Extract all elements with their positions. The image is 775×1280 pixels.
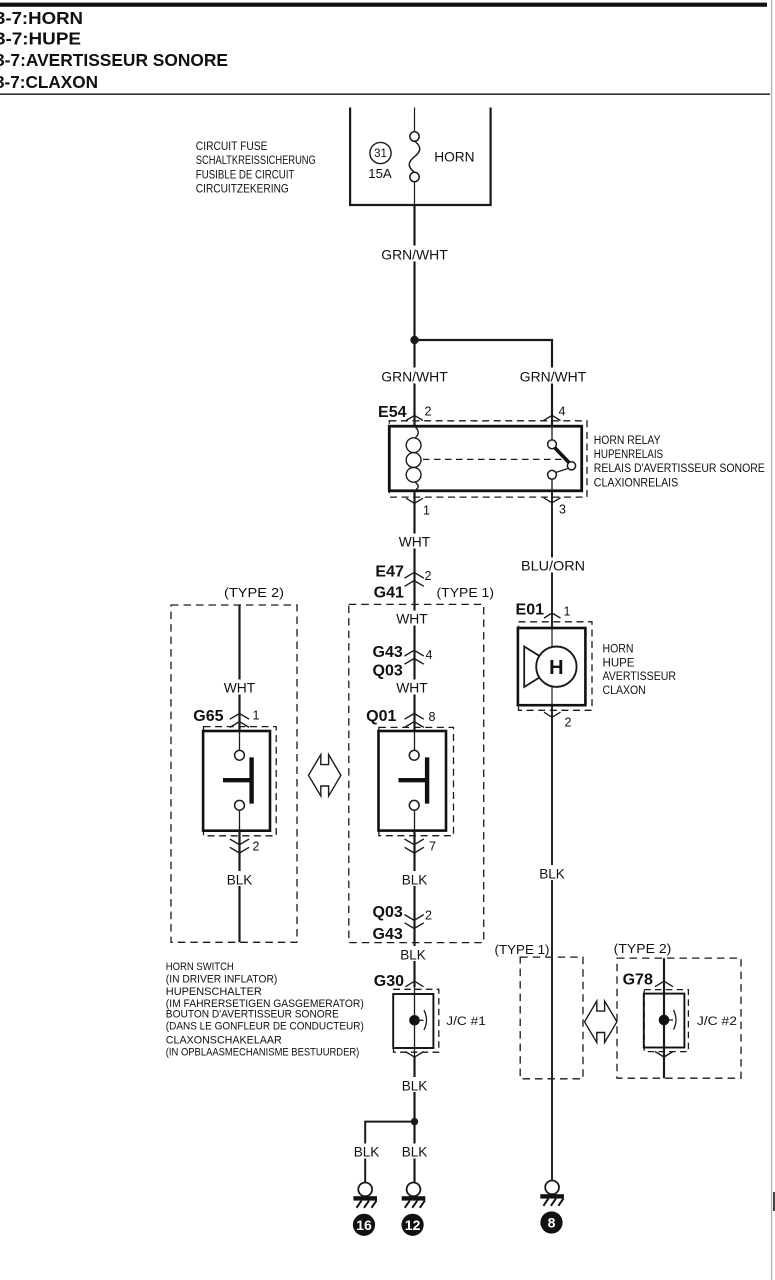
label WHT (below relay) bbox=[397, 534, 432, 550]
svg-text:WHT: WHT bbox=[224, 680, 256, 696]
horn E01 box bbox=[518, 628, 586, 705]
wire branch to relay pin 4 bbox=[415, 340, 553, 426]
svg-text:E01: E01 bbox=[516, 601, 545, 618]
svg-text:G30: G30 bbox=[374, 973, 404, 990]
connector Q01 pin 7 double chevron bbox=[405, 839, 424, 853]
label WHT (inside TYPE1) bbox=[395, 611, 430, 627]
svg-text:BLK: BLK bbox=[354, 1144, 380, 1160]
svg-text:4: 4 bbox=[559, 405, 566, 419]
TYPE 2 dashed box (ground variant) bbox=[617, 958, 741, 1078]
page top border bbox=[0, 3, 767, 7]
svg-text:HORN: HORN bbox=[603, 641, 634, 655]
label GRN/WHT (top) bbox=[379, 246, 450, 263]
svg-text:E54: E54 bbox=[378, 404, 407, 421]
pin 2 label bbox=[425, 405, 432, 419]
fuse number circle 31 bbox=[370, 142, 391, 163]
pin 4 label bbox=[559, 405, 566, 419]
wire BLK below Q01 bbox=[413, 831, 415, 987]
TYPE 2 dashed box (horn switch variant) bbox=[171, 605, 297, 942]
title 3-7:HUPE bbox=[0, 29, 81, 49]
svg-text:HUPENRELAIS: HUPENRELAIS bbox=[594, 447, 663, 461]
svg-text:E47: E47 bbox=[375, 563, 404, 580]
J/C #2 connector dashed box bbox=[644, 990, 688, 1052]
svg-text:15A: 15A bbox=[368, 167, 392, 181]
svg-text:CLAXIONRELAIS: CLAXIONRELAIS bbox=[594, 475, 678, 489]
svg-text:12: 12 bbox=[405, 1217, 421, 1233]
connector E54 pin 2 chevron bbox=[406, 415, 423, 420]
label GRN/WHT (left branch) bbox=[379, 368, 450, 385]
relay connector dashed box bbox=[389, 421, 587, 497]
svg-text:J/C #2: J/C #2 bbox=[697, 1014, 737, 1028]
wire BLK horn to ground 8 bbox=[551, 705, 553, 1180]
svg-text:3-7:HUPE: 3-7:HUPE bbox=[0, 29, 81, 49]
caption horn switch bbox=[166, 961, 364, 1058]
svg-text:3: 3 bbox=[559, 503, 566, 517]
ground circle number 12 bbox=[402, 1214, 424, 1236]
horn switch Q01 box bbox=[379, 731, 447, 831]
label G78 bbox=[623, 971, 653, 988]
svg-text:4: 4 bbox=[426, 648, 433, 662]
svg-text:HORN: HORN bbox=[434, 149, 474, 165]
horn switch G65 box bbox=[203, 731, 270, 831]
svg-text:BLK: BLK bbox=[402, 872, 428, 888]
J/C #2 joint dot and bus bbox=[659, 1010, 676, 1030]
svg-text:(TYPE 1): (TYPE 1) bbox=[437, 585, 495, 600]
J/C #1 joint dot and bus bbox=[409, 1010, 426, 1030]
svg-text:GRN/WHT: GRN/WHT bbox=[520, 369, 587, 385]
svg-text:1: 1 bbox=[564, 605, 571, 619]
svg-text:CIRCUITZEKERING: CIRCUITZEKERING bbox=[196, 181, 289, 195]
horn relay box bbox=[389, 426, 581, 491]
wire: feed into fuse (inside box) bbox=[414, 108, 416, 133]
label BLK (TYPE2) bbox=[225, 871, 255, 888]
svg-text:BLK: BLK bbox=[227, 872, 253, 888]
label BLK (ground 12) bbox=[400, 1144, 430, 1160]
label BLK (below J/C1) bbox=[400, 1077, 430, 1094]
svg-text:1: 1 bbox=[423, 504, 430, 518]
svg-text:(TYPE 2): (TYPE 2) bbox=[224, 585, 284, 600]
label E47 bbox=[375, 563, 404, 580]
svg-text:(IN OPBLAASMECHANISME BESTUURD: (IN OPBLAASMECHANISME BESTUURDER) bbox=[166, 1046, 360, 1058]
E01 pin 2 label bbox=[565, 716, 572, 730]
connector Q01 pin 8 double chevron bbox=[405, 714, 424, 728]
svg-text:G78: G78 bbox=[623, 971, 653, 988]
svg-text:GRN/WHT: GRN/WHT bbox=[381, 247, 448, 263]
junction block outline (open-top fuse box) bbox=[350, 108, 491, 206]
label G41 bbox=[374, 584, 404, 601]
svg-text:SCHALTKREISSICHERUNG: SCHALTKREISSICHERUNG bbox=[196, 153, 316, 167]
svg-text:Q03: Q03 bbox=[373, 663, 403, 680]
Q01 switch contacts bbox=[399, 731, 428, 831]
J/C #1 bottom chevron bbox=[406, 1052, 424, 1058]
svg-text:WHT: WHT bbox=[399, 534, 431, 550]
svg-text:2: 2 bbox=[565, 716, 572, 730]
inline connector G43/Q03 double chevron bbox=[405, 650, 424, 664]
svg-text:G43: G43 bbox=[373, 926, 403, 943]
Q01 pin 7 label bbox=[429, 840, 436, 854]
caption horn bbox=[603, 641, 677, 697]
fuse 15A symbol bbox=[409, 132, 420, 205]
G65 connector dashed box bbox=[204, 727, 277, 836]
svg-text:BLK: BLK bbox=[402, 1144, 428, 1160]
wire BLK below J/C #1 bbox=[413, 1057, 415, 1183]
svg-text:2: 2 bbox=[425, 569, 432, 583]
fuse name label HORN bbox=[434, 149, 474, 165]
wire through J/C #1 bbox=[414, 987, 416, 1057]
label G65 bbox=[193, 708, 223, 725]
E47 pin 2 label bbox=[425, 569, 432, 583]
svg-text:RELAIS D'AVERTISSEUR SONORE: RELAIS D'AVERTISSEUR SONORE bbox=[594, 461, 765, 475]
svg-text:FUSIBLE DE CIRCUIT: FUSIBLE DE CIRCUIT bbox=[196, 167, 295, 181]
svg-text:1: 1 bbox=[253, 709, 260, 723]
caption circuit fuse bbox=[196, 139, 316, 195]
svg-text:2: 2 bbox=[253, 840, 260, 854]
wire BLU/ORN relay pin3 down to horn bbox=[551, 491, 553, 628]
svg-text:BLK: BLK bbox=[400, 947, 426, 963]
ground circle number 8 bbox=[540, 1211, 562, 1233]
svg-text:8: 8 bbox=[548, 1215, 556, 1231]
ground symbol 16 bbox=[353, 1183, 377, 1208]
label (TYPE 1) top bbox=[437, 585, 495, 600]
svg-text:2: 2 bbox=[425, 909, 432, 923]
TYPE 1 dashed box (ground variant) bbox=[520, 957, 583, 1079]
svg-text:BLK: BLK bbox=[402, 1078, 428, 1094]
pin 3 label bbox=[559, 503, 566, 517]
svg-text:3-7:AVERTISSEUR SONORE: 3-7:AVERTISSEUR SONORE bbox=[0, 50, 228, 70]
svg-text:HUPENSCHALTER: HUPENSCHALTER bbox=[166, 986, 262, 998]
svg-text:CLAXON: CLAXON bbox=[603, 683, 646, 697]
wire through horn bbox=[551, 628, 553, 705]
E01 pin 1 label bbox=[564, 605, 571, 619]
label E01 bbox=[516, 601, 545, 618]
Q01 connector dashed box bbox=[379, 727, 454, 835]
svg-text:G43: G43 bbox=[373, 644, 403, 661]
connector G30 chevron bbox=[406, 981, 424, 987]
label Q03 (lower) bbox=[373, 904, 403, 921]
header separator line bbox=[0, 93, 770, 95]
svg-text:31: 31 bbox=[374, 148, 387, 160]
label G30 bbox=[374, 973, 404, 990]
title 3-7:CLAXON bbox=[0, 72, 98, 92]
wire GRN/WHT from fuse to junction bbox=[413, 205, 415, 426]
OR double arrow (switch types) bbox=[309, 755, 341, 797]
svg-text:2: 2 bbox=[425, 405, 432, 419]
connector E54 pin 4 chevron bbox=[544, 415, 561, 420]
svg-text:BOUTON D'AVERTISSEUR SONORE: BOUTON D'AVERTISSEUR SONORE bbox=[166, 1008, 339, 1020]
label GRN/WHT (right branch) bbox=[518, 368, 589, 385]
J/C #1 box bbox=[393, 994, 433, 1048]
OR double arrow (ground types) bbox=[585, 1001, 617, 1043]
svg-text:(TYPE 2): (TYPE 2) bbox=[614, 941, 672, 956]
label BLK (ground 16) bbox=[351, 1144, 381, 1160]
svg-text:G41: G41 bbox=[374, 584, 404, 601]
label WHT (TYPE2) bbox=[222, 680, 257, 696]
label (TYPE 2) top bbox=[224, 585, 284, 600]
relay pin 1 chevron bbox=[406, 498, 423, 503]
J/C #2 box bbox=[644, 994, 685, 1048]
relay switch contacts bbox=[548, 426, 576, 491]
inline connector Q03/G43 double chevron down bbox=[405, 915, 424, 929]
svg-text:(TYPE 1): (TYPE 1) bbox=[495, 942, 550, 957]
label Q03 bbox=[373, 663, 403, 680]
ground circle number 16 bbox=[353, 1214, 375, 1236]
label G43 bbox=[373, 644, 403, 661]
E01 connector dashed box bbox=[519, 622, 593, 711]
connector G65 pin 1 double chevron bbox=[230, 714, 249, 728]
relay pin 3 chevron bbox=[544, 498, 561, 503]
svg-text:(IN DRIVER INFLATOR): (IN DRIVER INFLATOR) bbox=[166, 973, 278, 985]
right page border bbox=[772, 0, 775, 1280]
Q03 pin 2 label bbox=[425, 909, 432, 923]
title 3-7:AVERTISSEUR SONORE bbox=[0, 50, 228, 70]
label Q01 bbox=[366, 708, 396, 725]
wire WHT in TYPE2 bbox=[238, 605, 240, 731]
svg-text:BLU/ORN: BLU/ORN bbox=[521, 558, 585, 574]
svg-text:(DANS LE GONFLEUR DE CONDUCTEU: (DANS LE GONFLEUR DE CONDUCTEUR) bbox=[166, 1021, 364, 1033]
connector G78 chevron bbox=[655, 981, 673, 987]
svg-text:GRN/WHT: GRN/WHT bbox=[381, 369, 448, 385]
ground symbol 12 bbox=[402, 1183, 426, 1208]
J/C #1 connector dashed box bbox=[394, 989, 439, 1052]
label BLK (above G30) bbox=[398, 946, 428, 963]
svg-text:Q01: Q01 bbox=[366, 708, 396, 725]
svg-text:HUPE: HUPE bbox=[603, 655, 635, 669]
svg-text:16: 16 bbox=[356, 1217, 372, 1233]
G43 pin 4 label bbox=[426, 648, 433, 662]
label BLU/ORN bbox=[518, 558, 588, 574]
svg-text:H: H bbox=[549, 657, 563, 679]
svg-text:AVERTISSEUR: AVERTISSEUR bbox=[603, 669, 677, 683]
label J/C #1 bbox=[446, 1014, 486, 1028]
fuse rating label 15A bbox=[368, 167, 392, 181]
J/C #2 bottom chevron bbox=[655, 1052, 673, 1058]
svg-text:3-7:HORN: 3-7:HORN bbox=[0, 8, 83, 28]
svg-text:Q03: Q03 bbox=[373, 904, 403, 921]
svg-text:CLAXONSCHAKELAAR: CLAXONSCHAKELAAR bbox=[166, 1034, 282, 1046]
label WHT (above Q01) bbox=[395, 680, 430, 696]
connector E01 pin 1 chevron bbox=[544, 613, 561, 618]
G65 pin 1 label bbox=[253, 709, 260, 723]
G65 pin 2 label bbox=[253, 840, 260, 854]
relay mechanical dashed link bbox=[423, 458, 563, 460]
label BLK (right) bbox=[537, 865, 567, 882]
label E54 bbox=[378, 404, 407, 421]
branch wire to ground 16 bbox=[365, 1122, 414, 1183]
connector E01 pin 2 chevron bbox=[544, 712, 561, 717]
Q01 pin 8 label bbox=[429, 710, 436, 724]
svg-text:3-7:CLAXON: 3-7:CLAXON bbox=[0, 72, 98, 92]
junction dot (ground branch) bbox=[411, 1118, 418, 1125]
svg-text:WHT: WHT bbox=[396, 611, 428, 627]
connector G65 pin 2 double chevron bbox=[230, 839, 249, 853]
svg-text:HORN SWITCH: HORN SWITCH bbox=[166, 961, 234, 973]
ground symbol 8 bbox=[540, 1181, 564, 1206]
label (TYPE 2) bottom bbox=[614, 941, 672, 956]
svg-text:7: 7 bbox=[429, 840, 436, 854]
label J/C #2 bbox=[697, 1014, 737, 1028]
svg-text:BLK: BLK bbox=[539, 866, 565, 882]
pin 1 label bbox=[423, 504, 430, 518]
junction dot bbox=[410, 336, 418, 344]
label G43 (lower) bbox=[373, 926, 403, 943]
svg-text:WHT: WHT bbox=[396, 680, 428, 696]
wire WHT relay pin1 down to switch bbox=[413, 491, 415, 731]
label (TYPE 1) bottom bbox=[495, 942, 550, 957]
horn symbol (speaker + circle H) bbox=[524, 647, 576, 688]
caption horn relay bbox=[594, 433, 765, 489]
relay coil bbox=[406, 426, 421, 491]
label BLK (below Q01) bbox=[400, 871, 430, 888]
title 3-7:HORN bbox=[0, 8, 83, 28]
svg-text:CIRCUIT FUSE: CIRCUIT FUSE bbox=[196, 139, 268, 153]
svg-text:J/C #1: J/C #1 bbox=[446, 1014, 486, 1028]
svg-text:HORN RELAY: HORN RELAY bbox=[594, 433, 661, 447]
svg-text:G65: G65 bbox=[193, 708, 223, 725]
G65 switch contacts bbox=[223, 731, 252, 831]
wire BLK below G65 bbox=[238, 831, 240, 942]
svg-text:8: 8 bbox=[429, 710, 436, 724]
inline connector E47/G41 double chevron bbox=[405, 572, 424, 586]
TYPE 1 dashed box (horn switch variant) bbox=[349, 604, 484, 942]
wire through TYPE2 ground box bbox=[663, 958, 665, 1078]
